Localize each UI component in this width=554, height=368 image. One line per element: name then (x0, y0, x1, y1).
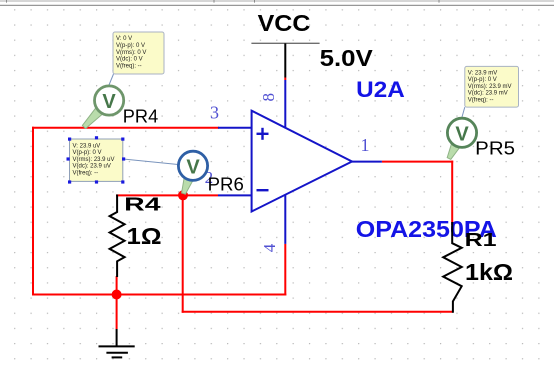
svg-text:R1: R1 (465, 230, 497, 250)
svg-text:3: 3 (210, 102, 219, 122)
svg-text:V: V (102, 91, 116, 113)
svg-text:PR5: PR5 (475, 139, 515, 159)
power symbol VCC: bar (251, 42, 319, 44)
probe PR6 magnifier circle (selected, blue ring) (178, 151, 207, 180)
svg-text:5.0V: 5.0V (320, 45, 374, 71)
probe PR5 handle (447, 144, 459, 160)
op-amp plus sign (non-inverting input marker) (257, 128, 269, 140)
svg-text:V: 23.9 mV: V: 23.9 mV (468, 70, 497, 76)
svg-text:1: 1 (361, 135, 370, 155)
svg-text:V: 0 V: V: 0 V (116, 36, 132, 42)
svg-text:V(freq): --: V(freq): -- (116, 63, 142, 69)
op-amp U2A triangle body (252, 111, 352, 212)
wire: inverting net vertical segment down to feedback wire (182, 194, 184, 312)
svg-text:VCC: VCC (258, 10, 311, 36)
svg-text:PR6: PR6 (208, 175, 244, 195)
op-amp pin stub: output (352, 161, 382, 163)
junction: inverting input node dot (178, 190, 188, 200)
wire: output net vertical segment down to R1 (451, 161, 453, 225)
wire: non-inverting input net horizontal segment (32, 127, 219, 129)
probe PR4 leader line (109, 74, 114, 85)
op-amp pin stub: non-inverting input (218, 127, 252, 129)
power symbol VCC: vertical lead (284, 43, 286, 77)
probe PR6 handle (182, 178, 193, 194)
ground symbol (99, 329, 135, 357)
wire: short red joint on VCC lead (284, 78, 286, 81)
svg-text:1kΩ: 1kΩ (465, 259, 513, 285)
wire: output net horizontal segment (382, 161, 453, 163)
svg-text:V(freq): --: V(freq): -- (73, 171, 99, 177)
toolbar remnant strip at top of window (0, 0, 554, 5)
svg-text:V(dc): 0 V: V(dc): 0 V (116, 57, 143, 63)
svg-text:1Ω: 1Ω (127, 223, 162, 249)
resistor R4 body (zigzag) (110, 195, 125, 278)
svg-text:R4: R4 (124, 195, 160, 215)
op-amp pin stub: negative supply pin 4 (284, 195, 286, 244)
probe PR4 handle (82, 108, 102, 129)
svg-text:V(p-p): 0 V: V(p-p): 0 V (468, 77, 497, 83)
resistor R1 body (zigzag) (443, 222, 462, 313)
wire: bottom ground net horizontal segment (32, 294, 286, 296)
svg-text:4: 4 (260, 243, 279, 252)
svg-text:V(rms): 23.9 mV: V(rms): 23.9 mV (468, 84, 512, 90)
selection handles of PR6 tooltip (67, 136, 126, 183)
wire: R4 bottom short red segment to ground net (116, 276, 118, 295)
svg-text:V(rms): 0 V: V(rms): 0 V (116, 50, 146, 56)
wire: op-amp pin 4 to ground net vertical segment (284, 244, 286, 296)
probe PR6 leader line (124, 159, 178, 165)
svg-text:V(p-p): 0 V: V(p-p): 0 V (73, 150, 102, 156)
svg-text:V: 23.9 uV: V: 23.9 uV (73, 143, 101, 149)
junction: ground net node dot at R4 (112, 290, 122, 300)
svg-text:V: V (455, 123, 469, 145)
svg-text:V(freq): --: V(freq): -- (468, 98, 494, 104)
svg-text:V(rms): 23.9 uV: V(rms): 23.9 uV (73, 157, 115, 163)
op-amp pin stub: positive supply pin 8 (284, 80, 286, 129)
probe PR4 magnifier circle (95, 86, 124, 115)
probe PR5 leader line (462, 107, 465, 117)
svg-text:V: V (186, 156, 200, 178)
svg-text:PR4: PR4 (123, 107, 158, 127)
wire: ground branch red segment below junction (116, 295, 118, 330)
probe PR5 measurement tooltip (465, 66, 519, 107)
svg-text:U2A: U2A (356, 77, 405, 102)
op-amp pin stub: inverting input (218, 194, 252, 196)
probe PR4 measurement tooltip (113, 32, 164, 74)
svg-text:8: 8 (259, 93, 278, 102)
svg-text:V(p-p): 0 V: V(p-p): 0 V (116, 43, 145, 49)
probe PR6 measurement tooltip (selected) (70, 139, 123, 181)
svg-text:V(dc): 23.9 uV: V(dc): 23.9 uV (73, 164, 111, 170)
wire: left vertical segment of input loop (32, 127, 34, 296)
wire: feedback bottom horizontal segment to R1 (182, 311, 453, 313)
wire: inverting input net horizontal segment (116, 194, 218, 196)
op-amp minus sign (inverting input marker) (257, 189, 269, 191)
probe PR5 magnifier circle (447, 118, 476, 147)
svg-text:V(dc): 23.9 mV: V(dc): 23.9 mV (468, 91, 508, 97)
